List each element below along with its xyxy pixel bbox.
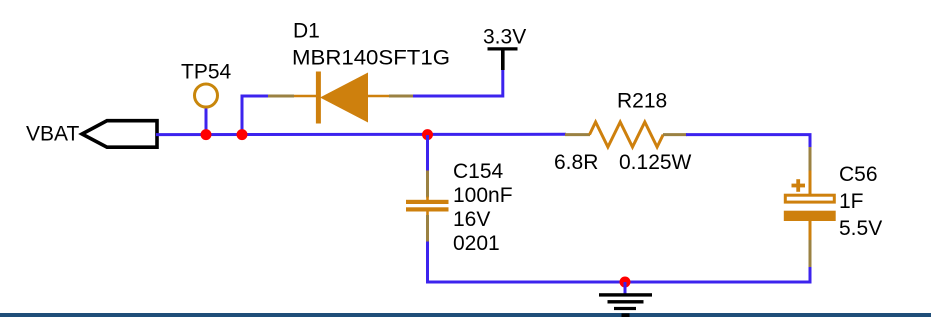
junction dot at ground (620, 277, 631, 288)
svg-text:D1: D1 (293, 20, 320, 43)
svg-text:MBR140SFT1G: MBR140SFT1G (292, 47, 450, 70)
wire main horizontal VBAT rail (156, 133, 566, 136)
svg-text:3.3V: 3.3V (483, 26, 526, 49)
wire stub right of R218 (663, 133, 687, 136)
wire stub below C154 (426, 215, 429, 243)
svg-text:TP54: TP54 (181, 61, 232, 84)
svg-text:16V: 16V (453, 208, 490, 231)
resistor R218 (590, 122, 664, 147)
svg-text:1F: 1F (839, 190, 864, 213)
junction dot at C154 (422, 129, 433, 140)
wire R218 to C56 corner (686, 135, 810, 148)
svg-text:0.125W: 0.125W (619, 151, 692, 174)
junction dot at diode branch (237, 129, 248, 140)
wire stub above C56 (809, 147, 812, 172)
wire C154 down and bottom rail (428, 242, 811, 283)
wire C56 to bottom rail (809, 267, 812, 284)
power symbol 3.3V (488, 49, 518, 70)
diode D1 (294, 72, 390, 124)
svg-text:5.5V: 5.5V (839, 217, 882, 240)
capacitor C56 (784, 171, 836, 242)
svg-text:R218: R218 (617, 90, 667, 113)
wire stub below C56 (809, 240, 812, 268)
off-page connector VBAT (82, 121, 157, 148)
svg-text:VBAT: VBAT (26, 123, 79, 146)
wire C154 upper stub (426, 135, 429, 172)
wire stub above C154 (426, 171, 429, 198)
svg-text:0201: 0201 (453, 232, 500, 255)
wire TP54 stem (205, 107, 208, 135)
svg-text:C56: C56 (839, 163, 878, 186)
test point TP54 (195, 84, 218, 107)
ground (599, 282, 652, 317)
capacitor C154 (406, 197, 449, 217)
wire stub left of R218 (565, 133, 590, 136)
wire stub left of D1 (268, 95, 294, 98)
svg-text:100nF: 100nF (453, 184, 513, 207)
svg-text:6.8R: 6.8R (554, 151, 598, 174)
wire D1 to 3.3V (413, 69, 503, 96)
svg-text:C154: C154 (453, 160, 504, 183)
wire stub right of D1 (389, 95, 414, 98)
junction dot at TP54 (201, 129, 212, 140)
wire diode branch left (up and right from junction) (242, 96, 270, 135)
